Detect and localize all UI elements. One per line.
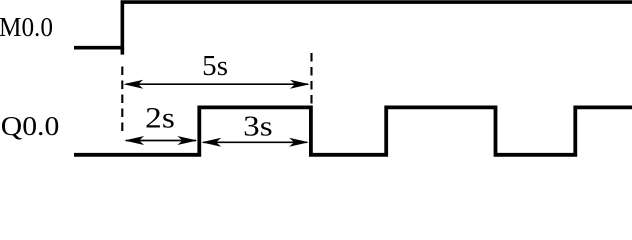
wire Q0.0 waveform [74,107,632,154]
arrowhead 5s right [290,80,310,89]
arrowhead 5s left [123,80,143,89]
arrowhead 2s right [177,136,197,145]
svg-text:2s: 2s [145,103,175,135]
wire M0.0 edge stub below low level [121,48,125,55]
arrowhead 3s left [201,138,221,147]
arrowhead 3s right [289,138,309,147]
arrowhead 2s left [124,136,144,145]
dimension arrow 5s line [126,83,308,85]
dashed line at M0.0 rising edge [121,67,123,135]
dimension arrow 3s line [203,141,307,143]
dimension arrow 2s line [126,140,196,142]
dashed line at Q0.0 first falling edge [310,53,312,106]
svg-text:5s: 5s [202,51,228,82]
svg-text:Q0.0: Q0.0 [1,111,60,141]
svg-text:3s: 3s [243,112,272,143]
svg-text:M0.0: M0.0 [0,12,53,42]
wire M0.0 waveform [74,2,632,48]
